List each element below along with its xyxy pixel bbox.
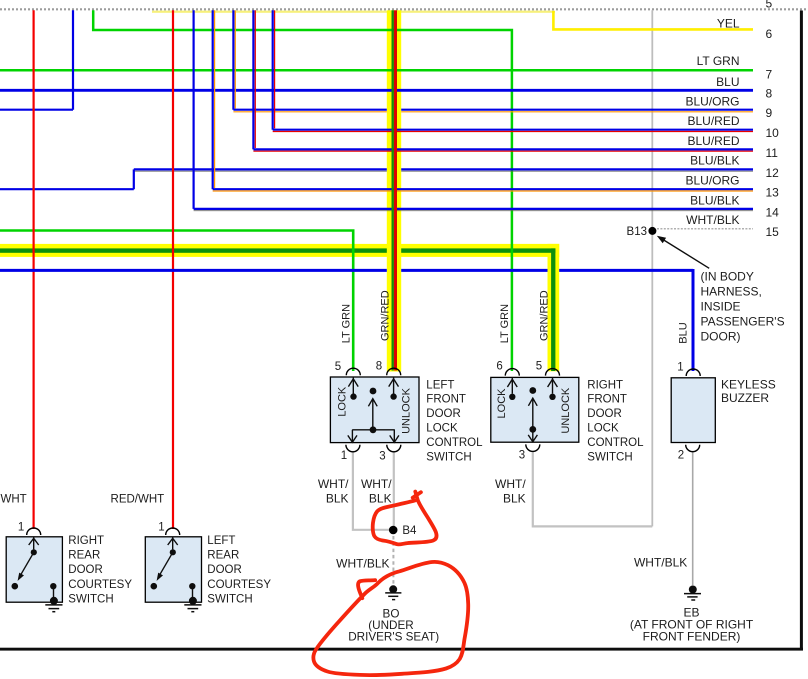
svg-text:SWITCH: SWITCH	[587, 451, 632, 463]
svg-text:RED/WHT: RED/WHT	[111, 493, 165, 505]
svg-text:BLK: BLK	[369, 492, 392, 506]
svg-text:5: 5	[766, 0, 773, 11]
svg-text:DRIVER'S SEAT): DRIVER'S SEAT)	[348, 630, 439, 643]
svg-text:SWITCH: SWITCH	[207, 593, 252, 605]
svg-text:WHT/BLK: WHT/BLK	[634, 555, 687, 569]
svg-text:1: 1	[18, 521, 24, 533]
svg-text:BLU/BLK: BLU/BLK	[690, 154, 739, 168]
svg-text:DOOR: DOOR	[207, 564, 242, 576]
svg-text:LOCK: LOCK	[426, 423, 458, 435]
svg-text:BLU/ORG: BLU/ORG	[685, 94, 739, 108]
svg-text:LOCK: LOCK	[337, 386, 349, 417]
svg-text:REAR: REAR	[68, 550, 100, 562]
svg-text:WHT/: WHT/	[495, 477, 526, 491]
svg-text:BLU/ORG: BLU/ORG	[685, 174, 739, 188]
svg-text:B4: B4	[402, 525, 417, 537]
svg-text:LEFT: LEFT	[207, 535, 235, 547]
svg-text:3: 3	[519, 450, 525, 462]
svg-text:COURTESY: COURTESY	[207, 579, 271, 591]
svg-text:LT GRN: LT GRN	[697, 54, 740, 68]
svg-text:BLU: BLU	[678, 322, 690, 343]
svg-text:15: 15	[766, 225, 780, 239]
svg-text:LOCK: LOCK	[496, 388, 508, 419]
svg-text:12: 12	[766, 166, 780, 180]
svg-text:BLK: BLK	[326, 492, 349, 506]
svg-text:BLU/RED: BLU/RED	[687, 134, 739, 148]
svg-text:FRONT FENDER): FRONT FENDER)	[643, 630, 741, 644]
svg-text:BLK: BLK	[503, 492, 526, 506]
svg-text:3: 3	[379, 451, 385, 463]
svg-text:8: 8	[766, 86, 773, 100]
svg-text:11: 11	[766, 146, 779, 160]
svg-text:BLU/BLK: BLU/BLK	[690, 193, 739, 207]
svg-text:1: 1	[677, 362, 683, 374]
svg-text:5: 5	[536, 361, 542, 373]
svg-text:REAR: REAR	[207, 550, 239, 562]
svg-text:WHT: WHT	[1, 493, 27, 505]
svg-text:LEFT: LEFT	[426, 379, 454, 391]
svg-text:B13: B13	[627, 226, 647, 238]
svg-text:RIGHT: RIGHT	[68, 535, 104, 547]
svg-text:SWITCH: SWITCH	[68, 593, 113, 605]
svg-text:BLU: BLU	[716, 75, 739, 89]
svg-text:7: 7	[766, 67, 773, 81]
svg-text:FRONT: FRONT	[587, 394, 627, 406]
svg-text:LT GRN: LT GRN	[499, 304, 511, 343]
svg-text:COURTESY: COURTESY	[68, 579, 132, 591]
svg-text:INSIDE: INSIDE	[701, 299, 741, 313]
svg-text:1: 1	[158, 521, 164, 533]
svg-text:6: 6	[496, 361, 502, 373]
svg-text:CONTROL: CONTROL	[426, 437, 483, 449]
svg-text:WHT/BLK: WHT/BLK	[336, 557, 389, 571]
svg-text:13: 13	[766, 185, 780, 199]
svg-text:9: 9	[766, 106, 773, 120]
svg-text:5: 5	[335, 361, 341, 373]
svg-text:UNLOCK: UNLOCK	[400, 387, 412, 434]
svg-text:HARNESS,: HARNESS,	[701, 284, 762, 298]
svg-text:DOOR: DOOR	[587, 408, 622, 420]
svg-text:10: 10	[766, 126, 780, 140]
svg-text:YEL: YEL	[717, 17, 740, 31]
svg-text:GRN/RED: GRN/RED	[538, 290, 550, 341]
svg-text:RIGHT: RIGHT	[587, 379, 623, 391]
svg-text:(IN BODY: (IN BODY	[701, 269, 754, 283]
svg-text:WHT/BLK: WHT/BLK	[686, 213, 739, 227]
svg-text:FRONT: FRONT	[426, 394, 466, 406]
svg-text:8: 8	[376, 361, 382, 373]
svg-text:UNLOCK: UNLOCK	[560, 387, 572, 434]
svg-text:WHT/: WHT/	[318, 477, 349, 491]
svg-text:DOOR): DOOR)	[701, 329, 741, 343]
svg-text:2: 2	[678, 450, 684, 462]
svg-text:1: 1	[341, 450, 347, 462]
svg-text:LOCK: LOCK	[587, 423, 619, 435]
svg-text:LT GRN: LT GRN	[340, 304, 352, 343]
svg-text:GRN/RED: GRN/RED	[380, 290, 392, 341]
svg-text:WHT/: WHT/	[361, 477, 392, 491]
svg-text:KEYLESS: KEYLESS	[721, 378, 776, 392]
svg-text:BLU/RED: BLU/RED	[687, 114, 739, 128]
svg-text:BUZZER: BUZZER	[721, 391, 769, 405]
svg-text:SWITCH: SWITCH	[426, 451, 471, 463]
svg-text:DOOR: DOOR	[426, 408, 461, 420]
svg-text:PASSENGER'S: PASSENGER'S	[701, 314, 785, 328]
svg-text:14: 14	[766, 205, 780, 219]
svg-text:DOOR: DOOR	[68, 564, 103, 576]
svg-text:6: 6	[766, 27, 773, 41]
svg-text:CONTROL: CONTROL	[587, 437, 644, 449]
